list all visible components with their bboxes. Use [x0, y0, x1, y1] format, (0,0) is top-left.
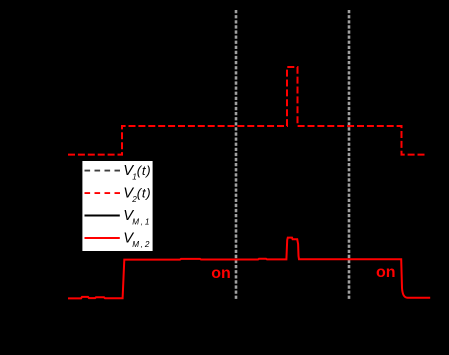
svg-text:on: on — [211, 265, 231, 282]
legend sample VM1 solid black — [85, 215, 120, 217]
svg-text:on: on — [376, 264, 396, 281]
legend sample VM2 solid red — [85, 237, 120, 239]
trace VM2 red solid — [68, 238, 430, 299]
legend sample V1 dashed black — [85, 170, 121, 172]
legend sample V2 dashed red — [85, 192, 121, 194]
gray timing line 1 — [235, 10, 238, 300]
legend box — [82, 160, 154, 252]
gray timing line 2 — [348, 10, 351, 300]
trace V2(t) red dashed — [68, 67, 426, 155]
